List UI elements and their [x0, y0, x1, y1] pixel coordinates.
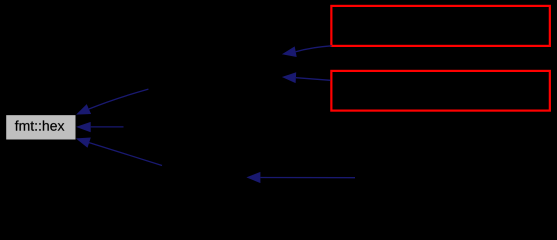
node red box 1 (truncated caller, red border) [331, 6, 549, 46]
edge arrow C: middle-top node -> fmt::hex [76, 89, 148, 115]
node bottom-right (invisible: black on black) [355, 166, 505, 192]
node middle-top (invisible: black on black) [149, 45, 282, 85]
edge arrow B: red box 2 -> middle-top node [282, 72, 331, 83]
edge arrow E: bottom-middle node -> fmt::hex [76, 138, 162, 166]
node middle (invisible: black on black) [124, 114, 268, 140]
node fmt::hex (current node, gray fill) [6, 115, 75, 139]
edge arrow D: middle node -> fmt::hex [76, 122, 124, 132]
edge arrow F: bottom-right node -> bottom-middle node [246, 172, 355, 183]
node bottom-middle (invisible: black on black) [162, 166, 247, 192]
edge arrow A: red box 1 -> middle-top node [282, 46, 332, 57]
node red box 2 (truncated caller, red border) [331, 71, 549, 111]
